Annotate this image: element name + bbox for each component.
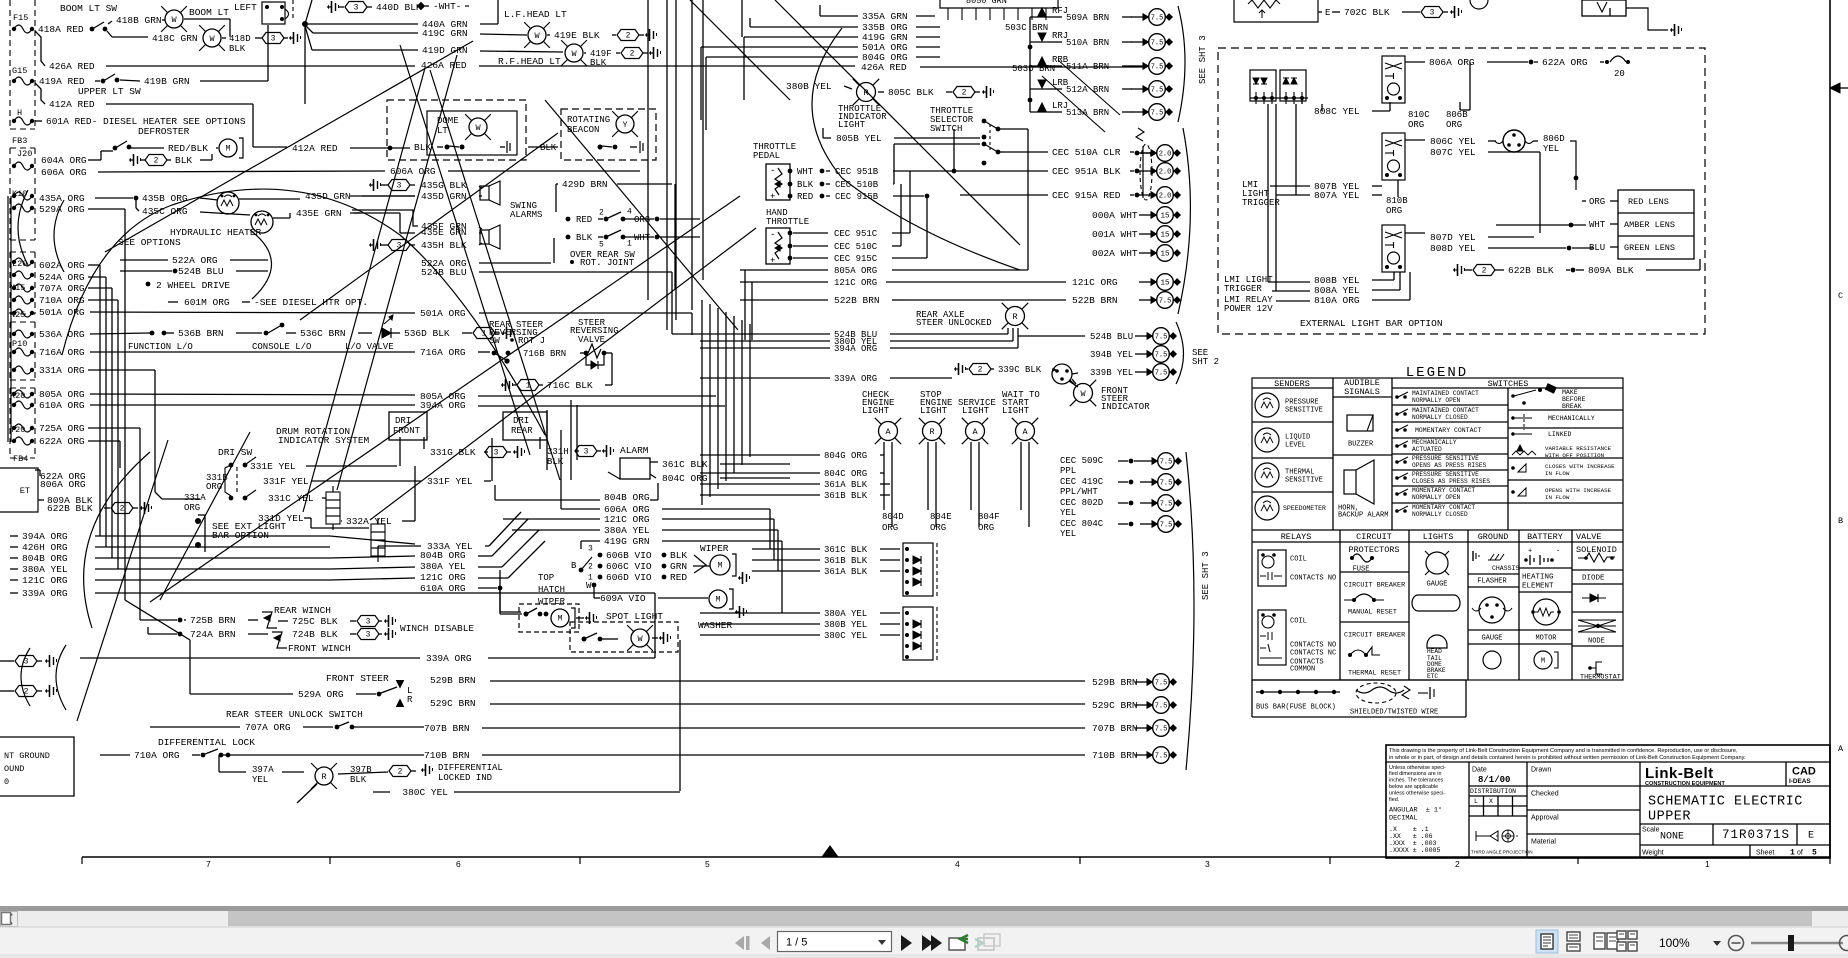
svg-text:CONTACTS NO: CONTACTS NO <box>1290 641 1336 649</box>
lockout valve diode <box>382 328 391 338</box>
svg-text:TRIGGER: TRIGGER <box>1242 198 1280 208</box>
wire 610A ORG mid <box>90 404 415 406</box>
svg-text:CONSOLE L/O: CONSOLE L/O <box>252 342 311 352</box>
svg-text:This drawing is the property o: This drawing is the property of Link-Bel… <box>1389 748 1738 754</box>
fuse sym <box>1352 554 1372 562</box>
svg-text:511A BRN: 511A BRN <box>1066 62 1109 72</box>
svg-text:AMBER LENS: AMBER LENS <box>1624 220 1675 230</box>
svg-text:WHT: WHT <box>797 167 814 177</box>
coil2 <box>371 518 385 562</box>
svg-text:524B BLU: 524B BLU <box>1090 332 1133 342</box>
heating elem sym <box>1533 599 1559 625</box>
svg-text:Sheet: Sheet <box>1756 849 1774 856</box>
svg-text:BLK: BLK <box>350 775 367 785</box>
arc throttle right <box>842 178 1020 270</box>
arc left top <box>18 190 28 265</box>
diagonal long 3 <box>150 196 740 602</box>
svg-text:LEVEL: LEVEL <box>1285 441 1306 449</box>
slant 503 <box>1042 76 1105 132</box>
wire 331G BLK <box>423 437 425 449</box>
svg-text:ORG: ORG <box>1408 120 1424 130</box>
svg-text:2 WHEEL DRIVE: 2 WHEEL DRIVE <box>156 280 230 291</box>
svg-text:804G ORG: 804G ORG <box>824 451 867 461</box>
svg-text:805A ORG: 805A ORG <box>39 389 85 400</box>
svg-text:4: 4 <box>955 859 960 869</box>
valve solenoid sym <box>1578 553 1615 562</box>
svg-text:622B BLK: 622B BLK <box>47 503 93 514</box>
svg-text:8/1/00: 8/1/00 <box>1478 775 1510 785</box>
svg-text:inches. The tolerances: inches. The tolerances <box>1389 778 1443 784</box>
diagonal gentle 2 <box>300 133 558 320</box>
svg-text:522A ORG: 522A ORG <box>172 255 218 266</box>
flasher sym <box>1479 597 1505 623</box>
svg-text:RELAYS: RELAYS <box>1281 532 1312 542</box>
svg-text:PPL: PPL <box>1060 466 1076 476</box>
bracket arcs <box>1178 6 1185 122</box>
svg-text:BUZZER: BUZZER <box>1348 440 1374 448</box>
svg-text:426A RED: 426A RED <box>861 62 907 73</box>
RFJ rows <box>1038 8 1046 16</box>
svg-text:PEDAL: PEDAL <box>753 151 780 161</box>
svg-text:M: M <box>558 615 563 624</box>
svg-text:524A ORG: 524A ORG <box>39 272 85 283</box>
coil 332A <box>326 486 340 530</box>
svg-text:F15: F15 <box>13 13 28 23</box>
svg-text:361B BLK: 361B BLK <box>824 491 868 501</box>
svg-text:MOMENTARY CONTACT: MOMENTARY CONTACT <box>1412 504 1475 511</box>
svg-text:2.0: 2.0 <box>1159 168 1172 176</box>
third angle projection <box>1476 831 1498 841</box>
svg-text:510A BRN: 510A BRN <box>1066 38 1109 48</box>
svg-text:R: R <box>1012 312 1017 322</box>
zoom out button <box>1729 936 1744 951</box>
svg-text:536D BLK: 536D BLK <box>404 328 450 339</box>
svg-text:2: 2 <box>588 563 593 572</box>
svg-text:DISTRIBUTION: DISTRIBUTION <box>1470 788 1516 795</box>
svg-text:LIGHT: LIGHT <box>862 406 890 416</box>
svg-text:419G GRN: 419G GRN <box>604 536 650 547</box>
svg-text:CIRCUIT: CIRCUIT <box>1356 532 1392 542</box>
legend row2 headers <box>1339 530 1341 680</box>
svg-text:VARIABLE RESISTANCE: VARIABLE RESISTANCE <box>1545 445 1612 452</box>
svg-text:15: 15 <box>1160 232 1170 240</box>
svg-text:529B BRN: 529B BRN <box>430 675 476 686</box>
svg-text:1 / 5: 1 / 5 <box>786 937 807 949</box>
svg-text:804B ORG: 804B ORG <box>420 550 466 561</box>
svg-text:LIQUID: LIQUID <box>1285 433 1310 441</box>
head light sym <box>1412 595 1460 611</box>
svg-text:7.5: 7.5 <box>1151 39 1164 47</box>
svg-text:808C YEL: 808C YEL <box>1314 106 1360 117</box>
svg-text:W: W <box>534 31 540 41</box>
svg-text:361A BLK: 361A BLK <box>824 480 868 490</box>
sensor 435C <box>135 198 137 208</box>
svg-text:R: R <box>321 772 326 782</box>
svg-text:LOCKED IND: LOCKED IND <box>438 773 492 783</box>
top right lamp cut <box>1470 0 1488 9</box>
svg-text:809A BLK: 809A BLK <box>1588 265 1634 276</box>
svg-text:CIRCUIT BREAKER: CIRCUIT BREAKER <box>1344 631 1405 639</box>
svg-text:606D VIO: 606D VIO <box>606 572 652 583</box>
svg-text:Drawn: Drawn <box>1531 766 1551 773</box>
svg-text:LIGHTS: LIGHTS <box>1423 532 1454 542</box>
wire 435G BLK <box>369 179 381 191</box>
svg-text:TOP: TOP <box>538 573 554 583</box>
wire 339A ORG lower <box>80 657 420 659</box>
svg-text:805A ORG: 805A ORG <box>834 266 877 276</box>
svg-text:2.0: 2.0 <box>1159 150 1172 158</box>
svg-text:WIPER: WIPER <box>538 597 566 607</box>
svg-text:TRIGGER: TRIGGER <box>1224 284 1262 294</box>
svg-text:THERMAL: THERMAL <box>1285 468 1314 476</box>
ground chassis sym <box>1472 551 1474 561</box>
svg-text:ORG: ORG <box>882 523 898 533</box>
svg-text:FRONT STEER: FRONT STEER <box>326 673 389 684</box>
svg-text:71R0371S: 71R0371S <box>1722 828 1790 842</box>
svg-text:BREAK: BREAK <box>1562 403 1582 410</box>
left bus verticals <box>7 196 9 442</box>
svg-text:RED: RED <box>797 192 813 202</box>
svg-text:3: 3 <box>354 4 359 13</box>
svg-text:806C YEL: 806C YEL <box>1430 136 1476 147</box>
svg-text:ELEMENT: ELEMENT <box>1522 583 1554 591</box>
svg-text:CEC 915B: CEC 915B <box>835 192 879 202</box>
svg-text:L.F.HEAD LT: L.F.HEAD LT <box>504 9 567 20</box>
svg-text:7.5: 7.5 <box>1160 521 1173 529</box>
svg-text:Weight: Weight <box>1642 849 1664 856</box>
svg-text:BEACON: BEACON <box>567 125 599 135</box>
svg-text:529B BRN: 529B BRN <box>1092 677 1138 688</box>
boom lamp W <box>161 6 187 32</box>
svg-text:529C BRN: 529C BRN <box>430 698 476 709</box>
relay 2 <box>1382 133 1405 180</box>
svg-text:7.5: 7.5 <box>1151 109 1164 117</box>
svg-text:804F: 804F <box>978 512 1000 522</box>
svg-text:536B BRN: 536B BRN <box>178 328 224 339</box>
diagonal long 4 <box>370 228 756 520</box>
svg-text:501A ORG: 501A ORG <box>39 307 85 318</box>
svg-text:3: 3 <box>584 448 589 457</box>
wire 412A RED <box>35 83 45 104</box>
svg-text:503D BRN: 503D BRN <box>1012 64 1055 74</box>
wire 524B BLU <box>173 269 178 274</box>
svg-text:3: 3 <box>271 35 276 44</box>
equipment ground box <box>0 737 74 796</box>
svg-text:806D: 806D <box>1543 134 1565 144</box>
sensor 435B <box>134 196 139 201</box>
left rows to mid <box>95 535 330 537</box>
svg-text:-: - <box>1556 547 1560 555</box>
date cell <box>1526 762 1528 858</box>
svg-text:707B BRN: 707B BRN <box>1092 723 1138 734</box>
wire 418B GRN <box>108 21 112 24</box>
defroster motor <box>219 138 243 158</box>
svg-text:2: 2 <box>962 89 967 98</box>
svg-text:B: B <box>1838 516 1843 526</box>
svg-text:CONTACTS NC: CONTACTS NC <box>1290 649 1336 657</box>
svg-text:724B BLK: 724B BLK <box>292 629 338 640</box>
svg-text:HYDRAULIC HEATER: HYDRAULIC HEATER <box>170 227 262 238</box>
svg-text:LT: LT <box>437 126 448 136</box>
svg-text:ROT. JOINT: ROT. JOINT <box>580 258 635 268</box>
svg-text:418B GRN: 418B GRN <box>116 15 162 26</box>
svg-text:ORG: ORG <box>184 503 200 513</box>
svg-text:GREEN LENS: GREEN LENS <box>1624 243 1675 253</box>
lens box <box>1618 190 1694 259</box>
svg-text:CEC 915A RED: CEC 915A RED <box>1052 190 1121 201</box>
riser 524A ORG <box>88 276 106 278</box>
svg-text:7.5: 7.5 <box>1155 369 1168 377</box>
svg-text:Y: Y <box>622 120 627 130</box>
svg-text:435H BLK: 435H BLK <box>421 240 467 251</box>
svg-text:W: W <box>475 123 481 133</box>
svg-text:331E YEL: 331E YEL <box>250 461 296 472</box>
svg-text:DEFROSTER: DEFROSTER <box>138 126 190 137</box>
svg-text:M: M <box>226 145 231 154</box>
diode sym <box>1590 594 1598 602</box>
svg-text:SWITCH: SWITCH <box>930 124 962 134</box>
node sym <box>1578 619 1616 621</box>
svg-text:710A ORG: 710A ORG <box>134 750 180 761</box>
arc left small 2 <box>56 645 66 710</box>
riser 602A ORG <box>88 264 100 266</box>
svg-text:CEC 915C: CEC 915C <box>834 254 878 264</box>
svg-text:529C BRN: 529C BRN <box>1092 700 1138 711</box>
layout icon continuous <box>1567 932 1580 951</box>
viewer divider bar <box>0 906 1848 911</box>
btn previous view <box>949 935 968 950</box>
svg-text:121C ORG: 121C ORG <box>420 572 466 583</box>
wire 622B BLK ext <box>1453 264 1465 276</box>
svg-text:LEFT: LEFT <box>234 2 257 13</box>
svg-text:W: W <box>209 34 215 44</box>
diagonal steep right 2 <box>400 45 530 455</box>
svg-text:7: 7 <box>206 859 211 869</box>
svg-text:+: + <box>770 192 775 202</box>
svg-text:7.5: 7.5 <box>1160 500 1173 508</box>
svg-text:HEATING: HEATING <box>1522 574 1554 582</box>
horn speaker <box>1344 470 1356 494</box>
svg-text:W: W <box>571 49 577 59</box>
wire 501A ORG <box>90 312 415 313</box>
svg-text:121C ORG: 121C ORG <box>22 575 68 586</box>
dome light inner box <box>427 111 517 155</box>
svg-text:380A YEL: 380A YEL <box>824 609 867 619</box>
wire 716C BLK <box>501 379 513 391</box>
arc throttle left <box>812 28 842 178</box>
svg-text:DRI: DRI <box>513 416 529 426</box>
svg-text:CHASSIS: CHASSIS <box>1492 565 1519 572</box>
left boom box <box>262 2 285 24</box>
svg-text:440D BLK: 440D BLK <box>376 2 422 13</box>
page icon corner <box>2 913 11 925</box>
riser 622A ORG <box>88 440 120 442</box>
svg-text:RED: RED <box>670 572 687 583</box>
layout icon single selected <box>1536 930 1558 953</box>
svg-text:3: 3 <box>397 182 402 191</box>
svg-text:804B ORG: 804B ORG <box>22 553 68 564</box>
svg-text:7.5: 7.5 <box>1155 351 1168 359</box>
svg-text:CEC 804C: CEC 804C <box>1060 519 1104 529</box>
svg-text:419D GRN: 419D GRN <box>422 45 468 56</box>
svg-text:ORG: ORG <box>206 482 222 492</box>
svg-text:SENSITIVE: SENSITIVE <box>1285 406 1323 414</box>
svg-text:Checked: Checked <box>1531 790 1559 797</box>
svg-text:ROTATING: ROTATING <box>567 115 610 125</box>
svg-text:15: 15 <box>1160 213 1170 221</box>
svg-text:M: M <box>1541 657 1545 665</box>
svg-text:RED LENS: RED LENS <box>1628 197 1669 207</box>
wire 601A RED <box>35 120 42 122</box>
svg-text:CEC 951B: CEC 951B <box>835 167 879 177</box>
svg-text:380B YEL: 380B YEL <box>786 81 832 92</box>
svg-text:435D GRN: 435D GRN <box>305 191 351 202</box>
cad ideas <box>1785 762 1787 786</box>
svg-text:804B ORG: 804B ORG <box>604 492 650 503</box>
svg-text:808D YEL: 808D YEL <box>1430 243 1476 254</box>
svg-text:FUNCTION L/O: FUNCTION L/O <box>128 342 193 352</box>
top right resistor box <box>1234 0 1318 22</box>
diode pack 2 <box>903 607 933 660</box>
svg-text:INDICATOR: INDICATOR <box>1101 402 1150 412</box>
svg-text:5: 5 <box>705 859 710 869</box>
svg-text:NT GROUND: NT GROUND <box>4 751 50 761</box>
svg-text:380B YEL: 380B YEL <box>824 620 867 630</box>
svg-text:+: + <box>1528 547 1532 555</box>
svg-text:418C GRN: 418C GRN <box>152 33 198 44</box>
svg-text:522B BRN: 522B BRN <box>834 295 880 306</box>
svg-text:UPPER: UPPER <box>1648 810 1691 825</box>
svg-text:522B BRN: 522B BRN <box>1072 295 1118 306</box>
wire 331H BLK <box>539 437 541 449</box>
svg-text:503C BRN: 503C BRN <box>1005 23 1048 33</box>
svg-text:380A YEL: 380A YEL <box>22 564 68 575</box>
svg-text:331A: 331A <box>184 493 206 503</box>
svg-text:LIGHT: LIGHT <box>962 406 990 416</box>
svg-text:536C BRN: 536C BRN <box>300 328 346 339</box>
svg-text:M: M <box>718 562 723 571</box>
toolbar background <box>0 927 1848 958</box>
svg-text:L: L <box>1474 798 1478 805</box>
svg-text:WINCH DISABLE: WINCH DISABLE <box>400 623 474 634</box>
svg-text:BATTERY: BATTERY <box>1527 532 1563 542</box>
svg-text:121C ORG: 121C ORG <box>1072 277 1118 288</box>
svg-text:NODE: NODE <box>1588 637 1605 645</box>
diagonal bottom left 1 <box>77 440 168 721</box>
svg-text:418A RED: 418A RED <box>38 24 84 35</box>
svg-text:BLK: BLK <box>797 180 814 190</box>
svg-text:WIPER: WIPER <box>700 543 729 554</box>
svg-text:805B YEL: 805B YEL <box>836 133 882 144</box>
2 wheel drive <box>146 282 151 287</box>
svg-text:3: 3 <box>588 545 593 554</box>
svg-text:724A BRN: 724A BRN <box>190 629 236 640</box>
svg-text:BLK: BLK <box>576 233 593 243</box>
svg-text:339A ORG: 339A ORG <box>834 374 877 384</box>
diagonal steep right 1 <box>430 70 560 480</box>
svg-text:PRESSURE: PRESSURE <box>1285 398 1319 406</box>
svg-text:C: C <box>1838 291 1843 301</box>
svg-text:7.5: 7.5 <box>1155 333 1168 341</box>
DRI REAR box <box>503 412 547 440</box>
svg-text:ORG: ORG <box>930 523 946 533</box>
svg-text:3: 3 <box>494 449 499 458</box>
svg-text:-SEE DIESEL HTR OPT.: -SEE DIESEL HTR OPT. <box>254 297 368 308</box>
svg-text:2: 2 <box>398 768 403 777</box>
svg-text:716C BLK: 716C BLK <box>547 380 593 391</box>
svg-text:606B VIO: 606B VIO <box>606 550 652 561</box>
svg-text:YEL: YEL <box>252 775 268 785</box>
svg-text:LINKED: LINKED <box>1548 431 1572 438</box>
svg-text:N25: N25 <box>10 310 25 320</box>
diff locked ind <box>218 755 220 772</box>
svg-text:W: W <box>1080 389 1086 399</box>
svg-text:of: of <box>1797 849 1803 856</box>
svg-text:3: 3 <box>366 631 371 640</box>
svg-text:361C BLK: 361C BLK <box>824 545 868 555</box>
svg-text:OPENS AS PRESS RISES: OPENS AS PRESS RISES <box>1412 462 1487 469</box>
left jogs of 335 group <box>819 5 821 16</box>
svg-text:J20: J20 <box>17 149 32 159</box>
svg-text:7.5: 7.5 <box>1155 679 1168 687</box>
svg-text:331F YEL: 331F YEL <box>263 476 309 487</box>
relay sym 1 <box>1258 550 1286 586</box>
svg-text:2: 2 <box>1455 859 1460 869</box>
svg-text:412A RED: 412A RED <box>292 143 338 154</box>
svg-text:609A VIO: 609A VIO <box>600 593 646 604</box>
svg-text:HATCH: HATCH <box>538 585 565 595</box>
legend outer & grid <box>1252 378 1623 680</box>
svg-text:7.5: 7.5 <box>1155 702 1168 710</box>
svg-text:806A ORG: 806A ORG <box>1429 57 1475 68</box>
wire 522A ORG <box>120 259 168 261</box>
top right ground wire <box>1626 8 1668 30</box>
svg-text:622A ORG: 622A ORG <box>39 436 85 447</box>
svg-text:OPENS WITH INCREASE: OPENS WITH INCREASE <box>1545 487 1612 494</box>
shielded twisted wire sym <box>1356 683 1396 703</box>
svg-text:2: 2 <box>154 157 159 166</box>
btn next page <box>901 935 912 951</box>
svg-text:7.5: 7.5 <box>1155 752 1168 760</box>
svg-text:RED: RED <box>576 215 592 225</box>
riser 529A ORG <box>88 208 125 210</box>
svg-text:7.5: 7.5 <box>1151 63 1164 71</box>
svg-text:509A BRN: 509A BRN <box>1066 13 1109 23</box>
svg-text:702C BLK: 702C BLK <box>1344 7 1390 18</box>
beacon dashed box <box>561 109 656 160</box>
svg-text:3: 3 <box>1430 9 1435 18</box>
wires 440A/419C/419D rows <box>302 21 308 27</box>
svg-text:R: R <box>929 427 934 437</box>
riser 707A ORG <box>88 287 112 289</box>
svg-text:ALARM: ALARM <box>620 445 649 456</box>
svg-text:ETC: ETC <box>1427 673 1438 680</box>
dri sw2 <box>236 467 238 494</box>
svg-text:121C ORG: 121C ORG <box>834 278 877 288</box>
svg-text:B: B <box>571 561 577 571</box>
svg-text:716A ORG: 716A ORG <box>420 347 466 358</box>
svg-text:PRESSURE SENSITIVE: PRESSURE SENSITIVE <box>1412 455 1479 462</box>
svg-text:BACKUP ALARM: BACKUP ALARM <box>1338 511 1388 519</box>
svg-text:CEC 802D: CEC 802D <box>1060 498 1103 508</box>
riser 710A ORG <box>88 299 118 301</box>
svg-text:804E: 804E <box>930 512 952 522</box>
svg-text:A: A <box>885 427 891 437</box>
svg-text:418D: 418D <box>229 34 251 44</box>
scrollbar track <box>0 911 1848 927</box>
left verticals throttle <box>744 270 746 340</box>
svg-text:CIRCUIT BREAKER: CIRCUIT BREAKER <box>1344 581 1405 589</box>
